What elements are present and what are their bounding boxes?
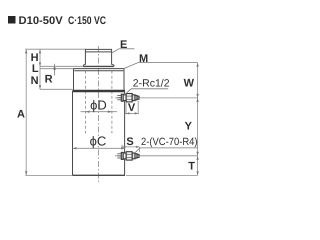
bore hidden line right — [111, 71, 113, 134]
svg-text:2-Rc1/2: 2-Rc1/2 — [133, 78, 170, 90]
svg-text:D10-50V: D10-50V — [19, 15, 64, 27]
svg-text:M: M — [139, 53, 148, 65]
svg-text:R: R — [45, 74, 53, 86]
port1 centerline / W-Y extension — [115, 97, 198, 99]
dimension S — [121, 145, 123, 150]
dimension H L N line — [39, 49, 41, 89]
svg-text:L: L — [32, 63, 39, 75]
svg-text:A: A — [17, 109, 25, 121]
rod — [85, 49, 112, 64]
dimension phiD — [81, 111, 118, 113]
dimension R line — [54, 64, 56, 76]
svg-text:Y: Y — [185, 120, 193, 132]
bore hidden line left — [85, 71, 87, 134]
svg-text:ϕD: ϕD — [90, 98, 107, 113]
svg-text:T: T — [188, 161, 195, 173]
svg-text:C·150 VC: C·150 VC — [68, 15, 106, 27]
extension line body bottom right — [126, 174, 198, 176]
dimension W Y T line — [197, 63, 199, 176]
extension line rod top — [25, 48, 85, 50]
extension line head top — [40, 68, 74, 70]
extension line body top — [40, 88, 73, 90]
port2 centerline / Y-T extension — [115, 155, 198, 157]
body top joint heavy line — [73, 90, 126, 92]
extension line collar bottom — [40, 65, 83, 67]
svg-text:S: S — [126, 136, 133, 148]
svg-text:ϕC: ϕC — [90, 134, 107, 149]
dimension phiC — [73, 147, 126, 149]
centerline vertical — [98, 46, 100, 184]
rod collar — [83, 65, 114, 67]
title square — [8, 16, 16, 24]
port fitting 2 (VC valve lower) — [117, 152, 139, 160]
dimension A line — [25, 49, 27, 175]
dimension V — [125, 102, 127, 114]
svg-text:N: N — [31, 75, 39, 87]
head — [74, 69, 125, 90]
body — [73, 91, 126, 175]
svg-text:2-(VC-70-R4): 2-(VC-70-R4) — [141, 136, 198, 148]
svg-text:W: W — [184, 78, 195, 90]
port fitting 1 (VC valve upper) — [117, 94, 139, 102]
svg-text:V: V — [128, 102, 136, 114]
extension line body bottom left — [25, 174, 72, 176]
